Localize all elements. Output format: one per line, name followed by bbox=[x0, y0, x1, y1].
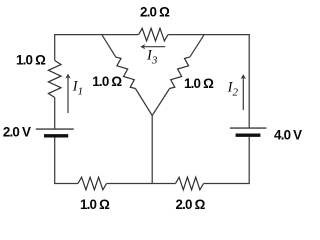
wire diagonal-right lower segment bbox=[152, 89, 169, 116]
svg-text:I2: I2 bbox=[227, 80, 239, 99]
resistor R6 1.0 ohm diagonal-left zigzag bbox=[116, 57, 136, 88]
battery B2 4.0 V short thick plate bbox=[236, 133, 261, 136]
wire bottom-left segment bbox=[54, 183, 78, 185]
svg-text:1.0 Ω: 1.0 Ω bbox=[80, 197, 110, 212]
wire bottom-middle segment bbox=[107, 183, 176, 185]
wire left mid segment bbox=[54, 98, 56, 129]
wire diagonal-left lower segment bbox=[135, 89, 152, 116]
current arrow I3 bbox=[140, 44, 165, 49]
battery B2 4.0 V long plate bbox=[230, 127, 267, 129]
wire bottom-right segment bbox=[204, 183, 250, 185]
svg-text:1.0 Ω: 1.0 Ω bbox=[184, 76, 214, 91]
svg-text:1.0 Ω: 1.0 Ω bbox=[16, 52, 46, 67]
battery B1 2.0 V short thick plate bbox=[44, 134, 68, 137]
current arrow I1 bbox=[65, 74, 70, 113]
svg-text:I3: I3 bbox=[146, 48, 158, 67]
resistor R7 1.0 ohm diagonal-right zigzag bbox=[170, 57, 190, 88]
svg-text:I1: I1 bbox=[72, 79, 83, 98]
wire diagonal-right upper segment bbox=[190, 35, 204, 57]
wire top-left segment bbox=[54, 34, 139, 36]
resistor R4 1.0 ohm bottom-left zigzag bbox=[78, 177, 107, 190]
wire diagonal-left upper segment bbox=[102, 35, 116, 57]
battery B1 2.0 V long plate bbox=[36, 128, 74, 130]
resistor R1 1.0 ohm left zigzag bbox=[48, 61, 61, 98]
wire middle vertical segment bbox=[151, 116, 153, 184]
wire top-right segment bbox=[168, 34, 250, 36]
resistor R5 2.0 ohm bottom-right zigzag bbox=[176, 177, 204, 190]
svg-text:2.0 Ω: 2.0 Ω bbox=[140, 5, 170, 20]
svg-text:4.0 V: 4.0 V bbox=[274, 128, 302, 143]
svg-text:1.0 Ω: 1.0 Ω bbox=[92, 74, 122, 89]
svg-text:2.0 V: 2.0 V bbox=[3, 125, 31, 140]
wire left top segment bbox=[54, 34, 56, 60]
resistor R3 2.0 ohm top zigzag bbox=[139, 28, 168, 41]
svg-text:2.0 Ω: 2.0 Ω bbox=[175, 197, 205, 212]
wire right top segment bbox=[248, 34, 250, 127]
wire left bottom segment bbox=[54, 138, 56, 184]
current arrow I2 bbox=[241, 74, 246, 110]
wire right bottom segment bbox=[248, 137, 250, 184]
